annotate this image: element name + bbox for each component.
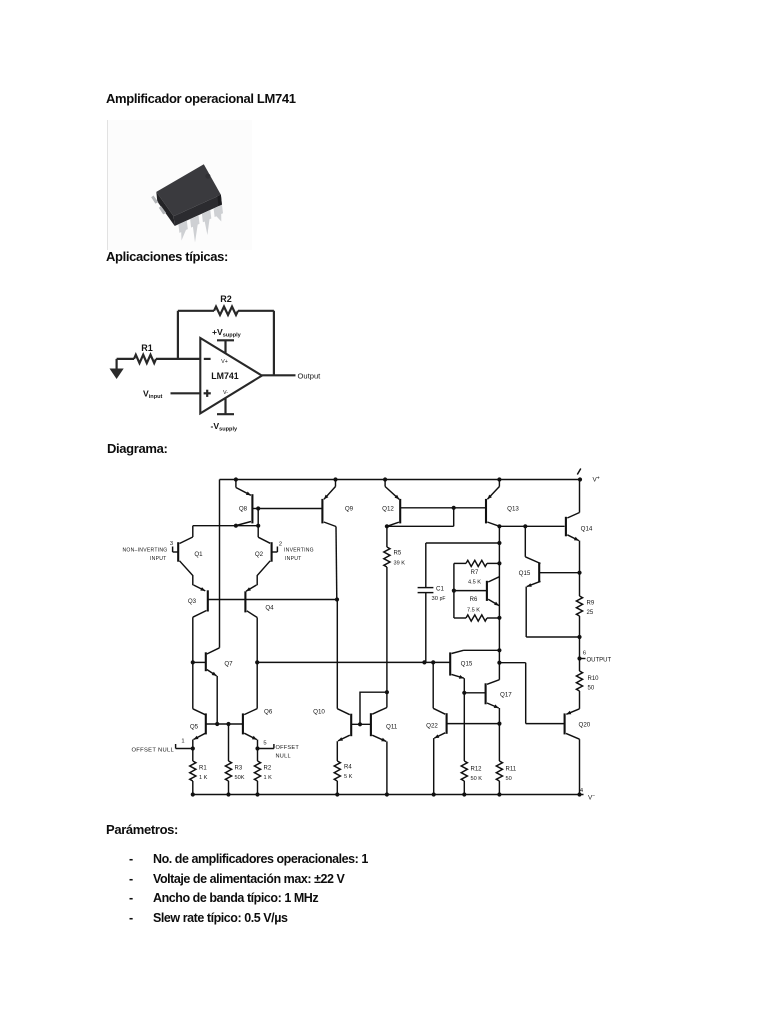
wire R7 left lead — [454, 562, 466, 564]
node Q7 base junction — [191, 660, 195, 664]
node Q8 base tie junction — [256, 524, 260, 528]
pin 7 tick — [577, 469, 581, 475]
svg-text:R1: R1 — [199, 766, 207, 772]
wire R11 bottom lead — [498, 781, 500, 795]
transistor Q13 bar — [485, 499, 487, 524]
node Q11 collector tie — [385, 690, 389, 694]
wire Q17 collector diag — [487, 680, 499, 685]
wire Q2 base stub — [272, 551, 278, 553]
heading Aplicaciones — [106, 249, 228, 264]
node C1 top junction — [497, 541, 501, 545]
wire Q11 base-collector hook — [360, 692, 387, 724]
wire Q10 emitter (arrow) — [338, 735, 350, 741]
wire Q15 emitter to output — [526, 636, 579, 638]
op-amp plus sign h — [204, 392, 211, 394]
node Q18 base — [452, 589, 456, 593]
wire C1 bottom vert — [425, 593, 427, 662]
svg-text:R12: R12 — [471, 767, 483, 773]
wire Q14 emitter (arrow) — [567, 535, 579, 541]
wire R10 top lead — [579, 659, 581, 672]
node Q17 base junction — [462, 691, 466, 695]
svg-text:V−: V− — [588, 794, 595, 802]
wire Q16 emitter vert — [463, 678, 465, 761]
wire Q15 base — [539, 572, 579, 574]
wire Q22 emitter vert — [433, 738, 435, 794]
wire Q13 emitter vert — [498, 480, 500, 487]
wire feedback right vert — [273, 311, 275, 376]
svg-text:50 K: 50 K — [471, 776, 483, 782]
wire ground stem — [115, 359, 117, 369]
wire Q20 collector vert — [579, 739, 581, 794]
wire Q5 emitter / R1 top — [192, 740, 194, 762]
node offset null 1 — [191, 746, 195, 750]
wire Q14 collector vert — [579, 480, 581, 513]
svg-text:-Vsupply: -Vsupply — [211, 421, 239, 433]
IC back pin stub 1 — [151, 196, 158, 204]
wire Q8 emitter vert — [235, 480, 237, 488]
svg-text:Q11: Q11 — [386, 724, 398, 731]
transistor Q9 bar — [321, 499, 323, 524]
resistor R6 — [466, 615, 487, 621]
node V+ pin — [578, 477, 582, 481]
wire Q12 emitter vert — [384, 480, 386, 487]
svg-text:25: 25 — [587, 610, 594, 616]
svg-text:OFFSET NULL: OFFSET NULL — [132, 747, 175, 753]
node Q12 collector/R5 — [385, 524, 389, 528]
wire Q5 collector diag — [193, 709, 206, 715]
wire Q2 collector diag — [258, 537, 270, 543]
svg-text:6: 6 — [583, 651, 586, 657]
op-amp minus sign — [204, 358, 211, 360]
wire Q8 base-collector tie — [257, 509, 259, 526]
svg-text:R2: R2 — [264, 766, 272, 772]
svg-text:Q17: Q17 — [500, 692, 512, 699]
IC chip notch — [205, 174, 210, 179]
wire Q15 collector diag — [525, 557, 540, 564]
wire Q22 collector diag — [433, 708, 445, 714]
IC pin 3 — [202, 210, 211, 235]
wire Q17 emitter (arrow) — [487, 703, 499, 708]
op-amp plus sign v — [206, 390, 208, 397]
svg-text:Q15: Q15 — [519, 570, 531, 577]
wire output — [262, 374, 296, 376]
svg-text:R2: R2 — [220, 294, 232, 304]
transistor Q5 bar — [205, 713, 207, 734]
wire Q16 emitter (arrow) — [452, 674, 464, 678]
pin 1 tick — [175, 744, 177, 749]
wire R3 top lead — [228, 724, 230, 761]
svg-text:LM741: LM741 — [211, 371, 238, 381]
wire Q9 collector diag — [324, 522, 336, 527]
wire R1 bottom lead — [192, 781, 194, 795]
wire Q9 collector vert — [335, 527, 338, 600]
svg-text:V-: V- — [223, 390, 228, 396]
wire Q8 emitter (arrow) — [236, 488, 251, 496]
wire Q8-Q9 base line — [258, 508, 322, 510]
wire Q22 base — [447, 723, 500, 725]
wire R3 bottom lead — [228, 781, 230, 795]
wire R4 top lead — [336, 741, 338, 761]
wire Q1 emitter — [180, 561, 193, 586]
node Q9 emitter on rail — [333, 477, 337, 481]
wire Q3/Q4 base line — [208, 599, 337, 601]
svg-text:R10: R10 — [588, 676, 600, 682]
svg-text:Q20: Q20 — [579, 722, 591, 729]
wire Q13 collector diag — [487, 522, 499, 526]
wire Q3-Q5 collector vert — [192, 617, 194, 709]
internal schematic — [110, 462, 620, 807]
node rail R3 bottom — [226, 792, 230, 796]
svg-text:50: 50 — [588, 685, 595, 691]
wire R7-R6 left vert — [453, 563, 455, 618]
node C1 bottom junction — [422, 660, 426, 664]
svg-text:Q13: Q13 — [507, 506, 519, 513]
svg-text:Q9: Q9 — [345, 506, 354, 513]
node Q13 collector — [497, 524, 501, 528]
wire Q1/Q2/Q8 collectors — [193, 525, 258, 527]
wire Q12 collector to base tie — [387, 525, 454, 527]
svg-text:NON–INVERTING: NON–INVERTING — [122, 548, 167, 554]
wire Q4 collector diag — [247, 611, 257, 618]
wire Q5 emitter (arrow) — [194, 733, 206, 739]
node Q15 base / R9 top — [577, 571, 581, 575]
svg-text:Q3: Q3 — [188, 598, 197, 605]
wire Q18 collector diag — [488, 577, 499, 582]
transistor Q14 bar — [565, 517, 567, 537]
svg-text:39 K: 39 K — [394, 560, 406, 566]
wire Q22 collector vert — [432, 662, 434, 708]
ground — [110, 369, 124, 380]
svg-text:Q8: Q8 — [239, 506, 248, 513]
svg-text:Q15: Q15 — [461, 661, 473, 668]
transistor Q10 bar — [350, 714, 352, 737]
resistor R9 — [576, 596, 582, 616]
node rail R1 bottom — [191, 792, 195, 796]
wire Q1 base stub — [173, 551, 179, 553]
svg-text:Q1: Q1 — [194, 551, 203, 558]
-Vsupply bar — [217, 413, 234, 415]
wire Q18 base — [454, 590, 487, 592]
wire R4 bottom lead — [336, 781, 338, 795]
resistor R2 — [214, 307, 238, 315]
node Q7 emitter junction — [215, 722, 219, 726]
wire Q11 collector vert — [386, 692, 388, 707]
wire R6 right lead — [487, 617, 499, 619]
wire feedback left vert — [177, 311, 179, 359]
wire Q6 emitter / R2 top — [257, 740, 259, 761]
wire Q8 collector diag — [236, 522, 251, 526]
wire R7 right lead — [487, 562, 499, 564]
svg-text:4.5 K: 4.5 K — [468, 580, 481, 586]
wire input-stage output (long) — [257, 661, 450, 663]
op-amp U1 triangle — [200, 338, 262, 413]
node R3 top junction — [226, 722, 230, 726]
resistor R1 — [190, 761, 196, 781]
resistor R3 — [225, 761, 231, 781]
wire Q2 emitter — [257, 561, 270, 586]
wire Vinput — [171, 392, 201, 394]
capacitor C1 plate top — [418, 587, 434, 589]
wire Q6 emitter (arrow) — [244, 733, 257, 739]
wire Q7 emitter (arrow) — [207, 670, 217, 676]
svg-text:NULL: NULL — [276, 753, 291, 759]
resistor R7 — [466, 560, 487, 566]
wire Q20 base — [526, 723, 565, 725]
svg-text:5: 5 — [263, 741, 266, 747]
node Q12/Q13 base — [452, 506, 456, 510]
wire Q8 base stub — [252, 508, 258, 510]
IC chip front face — [174, 195, 222, 226]
wire Q2 emitter into Q4 (arrow) — [246, 585, 257, 591]
node rail R2 bottom — [255, 792, 259, 796]
resistor R2 — [254, 761, 260, 781]
pin 5 tick — [273, 744, 275, 749]
resistor R4 — [334, 761, 340, 781]
wire V+ top rail — [220, 479, 581, 481]
transistor Q15 bar — [538, 562, 540, 582]
transistor Q12 bar — [399, 499, 401, 524]
wire Q2 collector drop — [257, 526, 259, 538]
wire Q7 collector vert — [219, 480, 221, 648]
node rail R11 bottom — [497, 792, 501, 796]
+Vsupply bar — [217, 339, 234, 341]
svg-text:30 pF: 30 pF — [432, 596, 446, 602]
svg-text:2: 2 — [279, 542, 282, 548]
wire Q20 collector diag — [566, 733, 580, 739]
capacitor C1 plate bottom — [418, 592, 434, 594]
transistor Q1 bar — [177, 542, 179, 562]
IC chip left front face — [156, 192, 174, 226]
svg-text:50K: 50K — [235, 775, 245, 781]
wire Q5-Q6 base — [206, 723, 243, 725]
node Q10/Q11 base — [358, 722, 362, 726]
wire Q9 emitter (arrow) — [324, 487, 336, 500]
transistor Q4 bar — [244, 591, 246, 612]
wire Q7 base — [193, 661, 206, 663]
transistor Q6 bar — [242, 713, 244, 734]
svg-text:7.5 K: 7.5 K — [467, 608, 480, 614]
wire R2 bottom lead — [257, 781, 259, 795]
node R7 right junction — [497, 561, 501, 565]
wire Q12 emitter (arrow) — [385, 487, 399, 500]
wire Q20 emitter (arrow) — [566, 709, 579, 715]
svg-text:INPUT: INPUT — [285, 556, 302, 562]
wire Q1 collector drop — [192, 526, 194, 537]
svg-text:R9: R9 — [587, 601, 595, 607]
wire Q7 collector diag — [207, 648, 220, 654]
svg-text:R5: R5 — [394, 551, 402, 557]
transistor Q3 bar — [207, 590, 209, 611]
wire Q6 collector diag — [244, 709, 257, 715]
node Q9/Q10 collector junction — [335, 597, 339, 601]
wire Q12 base tie vert — [453, 508, 455, 527]
IC chip right edge — [217, 195, 222, 206]
node rail Q20 collector — [577, 792, 581, 796]
svg-text:R11: R11 — [506, 767, 517, 773]
transistor Q17 bar — [485, 683, 487, 704]
svg-text:Q4: Q4 — [265, 605, 274, 612]
wire Q14 emitter vert — [579, 541, 581, 573]
svg-text:3: 3 — [170, 541, 173, 547]
node Q13 emitter on rail — [497, 477, 501, 481]
resistor R12 — [461, 761, 467, 781]
wire R5 bottom lead — [386, 567, 388, 692]
node Q8/Q9 base — [256, 506, 260, 510]
wire Q13 emitter (arrow) — [487, 487, 499, 500]
svg-text:R4: R4 — [344, 765, 352, 771]
svg-text:Q22: Q22 — [426, 723, 438, 730]
wire C1 top vert — [425, 543, 427, 587]
wire V- bottom rail — [193, 794, 584, 796]
title heading — [106, 91, 296, 106]
wire Q16 collector diag — [452, 650, 464, 653]
wire Q15 collector vert — [524, 526, 526, 557]
wire Q11 collector diag — [372, 708, 387, 715]
svg-text:V+: V+ — [593, 476, 600, 484]
svg-text:R7: R7 — [471, 570, 479, 576]
node output pin 6 — [577, 656, 581, 660]
wire Q15 emitter vert — [525, 587, 527, 637]
IC photo frame — [107, 120, 252, 250]
wire Q20 base tap — [499, 662, 525, 664]
wire Q12 collector diag — [387, 522, 399, 526]
svg-text:INVERTING: INVERTING — [284, 548, 314, 554]
wire Q13C to Q14 base — [499, 525, 564, 527]
wire Q4-Q6 collector vert — [256, 618, 258, 709]
svg-text:5 K: 5 K — [344, 774, 353, 780]
node Q8 emitter on rail — [234, 477, 238, 481]
wire Q22 emitter (arrow) — [434, 733, 445, 738]
resistor R11 — [496, 761, 502, 781]
pin 2 tick — [276, 547, 278, 553]
wire Q18 emitter (arrow) — [488, 599, 499, 605]
wire R9 bottom lead — [579, 616, 581, 659]
svg-text:INPUT: INPUT — [150, 556, 167, 562]
transistor Q18 bar — [486, 581, 488, 601]
svg-text:+Vsupply: +Vsupply — [212, 327, 242, 339]
wire R6 left lead — [454, 617, 466, 619]
svg-text:Q5: Q5 — [190, 724, 199, 731]
node Q22 base / R11 top — [497, 722, 501, 726]
wire R1 to inverting input — [156, 358, 200, 360]
wire input left — [117, 358, 134, 360]
wire Q17 emitter vert — [498, 708, 500, 761]
transistor Q8 bar — [251, 494, 253, 523]
wire Q1 collector diag — [180, 537, 193, 544]
node Q4/Q6 collector junction — [255, 660, 259, 664]
wire Q1 emitter into Q3 (arrow) — [194, 585, 206, 591]
node R6 right junction — [497, 616, 501, 620]
IC pin 2 — [190, 215, 199, 242]
svg-text:Q10: Q10 — [313, 709, 325, 716]
svg-text:1 K: 1 K — [264, 775, 273, 781]
wire offset null 5 stub — [258, 748, 274, 750]
wire Q16 collector to gain node — [464, 649, 500, 651]
node rail Q22 emitter — [432, 792, 436, 796]
transistor Q11 bar — [370, 713, 372, 736]
node Q22 collector junction — [431, 660, 435, 664]
IC photo chip top face — [156, 164, 221, 216]
IC pin 4 — [214, 205, 223, 222]
bullet list — [129, 852, 133, 866]
wire feedback top left — [178, 310, 214, 312]
wire Q12-Q13 base line — [400, 507, 486, 509]
wire Q14 collector diag — [567, 513, 579, 519]
wire gain node vertical — [498, 526, 500, 679]
svg-text:Q7: Q7 — [224, 661, 233, 668]
node offset null 5 — [255, 746, 259, 750]
svg-text:V+: V+ — [221, 359, 228, 365]
wire Q10-Q11 base — [351, 723, 371, 725]
svg-text:OUTPUT: OUTPUT — [587, 657, 612, 663]
node Q20 base tap — [497, 661, 501, 665]
wire C1 top — [426, 542, 500, 544]
wire feedback top right — [238, 310, 274, 312]
IC pin 1 — [178, 221, 187, 241]
svg-text:50: 50 — [506, 776, 512, 782]
transistor Q2 bar — [271, 542, 273, 562]
application circuit — [100, 288, 335, 438]
wire R10 bottom lead — [579, 691, 581, 709]
svg-text:R1: R1 — [141, 343, 153, 353]
transistor Q16 bar (labeled Q15) — [449, 652, 451, 675]
wire Q9 emitter vert — [335, 480, 337, 487]
wire Q10 collector vert — [336, 600, 338, 709]
wire offset null 1 stub — [176, 748, 193, 750]
wire Q17 base — [464, 692, 485, 694]
node rail R4 bottom — [335, 792, 339, 796]
resistor R5 — [384, 547, 390, 567]
node Q15 collector junction — [523, 524, 527, 528]
resistor R1 — [134, 355, 156, 363]
wire R12 bottom lead — [463, 781, 465, 795]
transistor Q20 bar — [564, 713, 566, 734]
svg-text:Vinput: Vinput — [143, 388, 163, 400]
wire output stub — [580, 658, 586, 660]
svg-text:Output: Output — [298, 371, 322, 380]
wire Q7 emitter vert — [216, 676, 218, 724]
svg-text:1: 1 — [181, 739, 184, 745]
node R9 bottom — [577, 635, 581, 639]
svg-text:Q2: Q2 — [255, 551, 264, 558]
node Q8 collector junction — [234, 524, 238, 528]
heading Parametros — [106, 822, 178, 837]
pin 3 tick — [172, 547, 174, 553]
resistor R10 — [576, 671, 582, 691]
wire Q11 emitter (arrow) — [372, 735, 386, 741]
transistor Q22 bar — [446, 713, 448, 734]
node Q12 emitter on rail — [383, 477, 387, 481]
svg-text:Q6: Q6 — [264, 709, 273, 716]
svg-text:C1: C1 — [436, 586, 444, 593]
node rail R12 bottom — [462, 792, 466, 796]
wire R5 top lead — [386, 526, 388, 547]
svg-text:Q12: Q12 — [382, 506, 394, 513]
svg-text:Q14: Q14 — [581, 526, 593, 533]
wire Q20 base vert — [525, 663, 527, 724]
svg-text:R6: R6 — [470, 597, 478, 603]
wire -Vsupply — [224, 398, 226, 414]
wire Q11 emitter vert — [386, 741, 388, 794]
heading Diagrama — [107, 441, 167, 456]
node rail Q11 emitter — [385, 792, 389, 796]
transistor Q7 bar — [205, 652, 207, 671]
wire +Vsupply — [224, 340, 226, 354]
svg-text:OFFSET: OFFSET — [276, 745, 300, 751]
wire Q10 collector diag — [337, 709, 350, 715]
IC back pin stub 2 — [159, 206, 166, 214]
svg-text:R3: R3 — [235, 766, 243, 772]
